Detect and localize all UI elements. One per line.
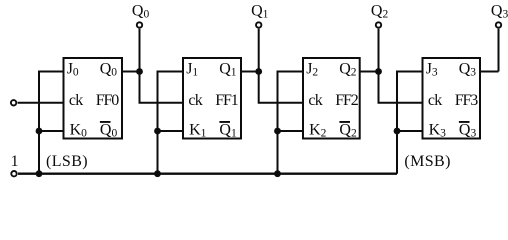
- wire K1 input: [158, 130, 184, 132]
- flip-flop FF0 box: [64, 58, 123, 139]
- pin label Qbar2 (inside box): [339, 121, 357, 139]
- pin label Qbar1 (inside box): [219, 121, 237, 139]
- label Q2 output terminal: [371, 3, 389, 21]
- junction Q2 output node: [375, 68, 382, 75]
- junction K0 on tie bus: [36, 128, 43, 135]
- label Q0 output terminal: [132, 3, 150, 21]
- terminal Q3: [496, 22, 501, 27]
- wire Q0 riser to output terminal: [139, 29, 141, 72]
- junction K3 on tie bus: [394, 128, 401, 135]
- terminal Q1: [256, 22, 261, 27]
- svg-text:ck: ck: [308, 92, 322, 109]
- junction Q1 output node: [255, 68, 262, 75]
- wire Q3 output: [480, 71, 499, 73]
- wire Q2 output: [360, 71, 379, 73]
- label Q3 output terminal: [491, 3, 508, 21]
- junction K2 on tie bus: [274, 128, 281, 135]
- wire Q0 output: [122, 71, 140, 73]
- junction Q0 output node: [136, 68, 143, 75]
- wire K3 input: [397, 130, 423, 132]
- wire Q0 down to FF1 clock input: [140, 72, 184, 103]
- flip-flop FF2 box: [303, 58, 360, 139]
- svg-text:ck: ck: [69, 92, 83, 109]
- svg-text:FF3: FF3: [455, 92, 479, 109]
- wire J2 input and J/K tie bus of FF2: [278, 72, 304, 174]
- input terminal 1 (J/K tie high): [11, 171, 16, 176]
- wire logic-1 bottom rail: [18, 172, 397, 174]
- svg-text:FF2: FF2: [335, 92, 359, 109]
- svg-text:1: 1: [11, 153, 19, 170]
- wire K0 input: [39, 130, 64, 132]
- pin label Qbar0 (inside box): [100, 121, 118, 139]
- wire J1 input and J/K tie bus of FF1: [158, 72, 184, 174]
- svg-text:FF1: FF1: [215, 92, 239, 109]
- junction tie bus FF0 on bottom rail: [36, 170, 43, 177]
- svg-text:ck: ck: [188, 92, 202, 109]
- wire Q1 output: [241, 71, 259, 73]
- wire clock to FF0 ck: [18, 102, 64, 104]
- terminal Q2: [376, 22, 381, 27]
- wire Q1 riser to output terminal: [258, 29, 260, 72]
- flip-flop FF3 box: [423, 58, 481, 139]
- svg-text:FF0: FF0: [96, 92, 120, 109]
- junction tie bus FF1 on bottom rail: [154, 170, 161, 177]
- wire Q2 riser to output terminal: [378, 29, 380, 72]
- wire Q3 riser to output terminal: [498, 29, 500, 72]
- svg-text:ck: ck: [428, 92, 442, 109]
- terminal Q0: [137, 22, 142, 27]
- wire Q1 down to FF2 clock input: [259, 72, 303, 103]
- svg-text:(LSB): (LSB): [46, 153, 88, 170]
- wire Q2 down to FF3 clock input: [379, 72, 423, 103]
- label Q1 output terminal: [251, 3, 269, 21]
- pin label Qbar3 (inside box): [459, 121, 477, 139]
- svg-text:(MSB): (MSB): [404, 153, 450, 170]
- clock input terminal: [11, 100, 16, 105]
- junction tie bus FF2 on bottom rail: [274, 170, 281, 177]
- flip-flop FF1 box: [183, 58, 241, 139]
- junction K1 on tie bus: [154, 128, 161, 135]
- wire K2 input: [278, 130, 304, 132]
- wire J0 input and J/K tie bus of FF0: [39, 72, 64, 174]
- wire J3 input and J/K tie bus of FF3: [397, 72, 423, 174]
